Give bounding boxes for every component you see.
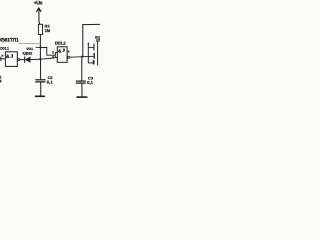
piezo body right [97,41,99,66]
wire lower branch to DD1.2 pin6 [41,58,55,60]
svg-text:DD1.2: DD1.2 [55,41,66,46]
piezo plate B [93,53,95,59]
pin 1-2 numbers blob [2,55,4,57]
svg-text:1М: 1М [45,28,51,33]
svg-text:5: 5 [52,50,54,54]
wire R3 column down [39,35,41,60]
node junction dot upper [39,47,41,49]
wire right spine down [82,25,83,81]
svg-text:4: 4 [68,50,70,54]
piezo plate A [93,44,95,51]
svg-text:К561ТЛ1: К561ТЛ1 [0,38,19,44]
svg-text:&: & [6,54,10,60]
capacitor C2 plates [35,79,45,81]
wire input serif [0,57,2,62]
svg-text:6: 6 [52,55,54,59]
scan artifact faint line [19,42,41,45]
gate DD1.2 output bubble [68,56,70,58]
pin 6 stub [55,57,57,59]
piezo tooth 3 [88,62,92,64]
gate DD1.1 box [5,52,17,67]
capacitor C2 top lead [40,59,42,79]
wire DD1.1 output [20,59,25,61]
piezo tooth 1 [88,46,93,48]
svg-text:0,1: 0,1 [47,80,53,85]
resistor R3 [38,24,42,34]
gate DD1.2 hysteresis mark [62,49,64,52]
wire DD1.1 input stub [0,58,5,60]
piezo element lead [87,43,89,63]
svg-text:ЗП: ЗП [96,39,100,43]
capacitor C2 bottom lead [40,82,42,96]
wire input tie DD1.2 [54,52,56,57]
wire R3 top stub [38,22,41,25]
wire diode to junction [30,58,41,60]
gate DD1.1 output bubble [18,59,20,61]
power arrow +Un [36,8,41,12]
svg-text:DD1.1: DD1.1 [0,46,9,50]
pin 5 stub [55,51,57,53]
wire upper branch to DD1.2 pin5 [36,47,56,55]
piezo plate C [93,60,95,64]
node junction dot output [82,56,84,58]
gate DD1.1 hysteresis mark [11,55,13,58]
svg-text:VD1: VD1 [26,47,33,51]
capacitor C3 bottom lead [81,83,83,97]
diode VD1 [24,57,26,63]
gate DD1.2 box [57,47,67,63]
capacitor C3 plates [76,80,86,82]
svg-text:КД522: КД522 [23,52,33,56]
wire top rail [82,23,100,25]
svg-text:+Uп: +Uп [34,0,43,6]
node junction dot lower [39,58,41,60]
ground C2 [35,95,45,97]
svg-text:0,1: 0,1 [87,80,93,85]
wire DD1.2 output [70,55,94,58]
ground C3 [76,96,87,98]
